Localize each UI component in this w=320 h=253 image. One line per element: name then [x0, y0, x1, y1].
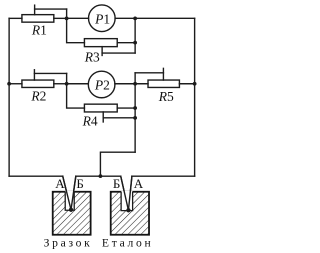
wire P1 to top right corner: [115, 17, 195, 19]
svg-text:P2: P2: [94, 78, 110, 93]
node dot P2 R5 junction: [133, 82, 137, 86]
wire left rail: [8, 18, 10, 176]
node dot bottom bus: [99, 174, 103, 178]
sample block Zrazok: [53, 191, 91, 235]
svg-text:R1: R1: [31, 22, 47, 37]
meter P1: [89, 5, 116, 32]
wire sample contacts redrawn over slot: [63, 176, 132, 210]
wire R3 right terminal: [117, 42, 135, 44]
meter P2: [88, 71, 115, 98]
node dot left rail R2: [7, 82, 11, 86]
svg-text:R2: R2: [30, 89, 46, 104]
etalon block: [111, 191, 149, 235]
wire bottom bus middle: [76, 175, 121, 177]
node dot R4 tap: [133, 116, 137, 120]
svg-text:Б: Б: [76, 176, 83, 191]
wire R2 to node B: [54, 83, 67, 85]
resistor R1: [22, 5, 67, 22]
svg-text:P1: P1: [94, 12, 110, 27]
wire etalon contact B: [121, 176, 129, 210]
svg-text:R4: R4: [82, 114, 98, 129]
wire node A down to R3: [67, 18, 85, 42]
wire node B down to R4: [67, 84, 85, 108]
wire bottom bus right: [132, 175, 195, 177]
svg-text:А: А: [134, 176, 144, 191]
wire etalon contact A: [128, 176, 132, 210]
resistor R4: [84, 104, 135, 122]
wire bottom bus left: [9, 175, 63, 177]
node dot R2 tap junction: [65, 82, 69, 86]
node dot right rail R5: [193, 82, 197, 86]
wire jog to bottom bus: [100, 152, 135, 176]
wire node C vertical down: [134, 84, 136, 152]
resistor R2: [22, 70, 67, 88]
resistor R3: [84, 39, 135, 56]
node dot top wire / R3 branch: [133, 16, 137, 20]
svg-text:R3: R3: [84, 49, 100, 64]
svg-text:А: А: [55, 176, 65, 191]
wire node A to P1: [67, 17, 89, 19]
wire rail to R2: [9, 83, 22, 85]
wire top left: rail to R1: [9, 17, 22, 19]
wire R5 to right rail: [179, 83, 194, 85]
wire R3 branch vertical: [134, 18, 136, 53]
svg-text:R5: R5: [158, 89, 174, 104]
node dot R3 right: [133, 41, 137, 45]
svg-text:Б: Б: [113, 176, 120, 191]
node dot sample contact: [69, 208, 73, 212]
node dot etalon contact: [126, 208, 130, 212]
node dot R4 right: [133, 106, 137, 110]
svg-text:Зразок: Зразок: [44, 236, 93, 249]
wire sample contact A: [63, 176, 71, 210]
resistor R5: [135, 68, 179, 87]
wire R1 to node A: [54, 17, 67, 19]
wire R4 right terminal: [117, 107, 135, 109]
wire P2 to node C: [115, 83, 148, 85]
svg-text:Еталон: Еталон: [102, 236, 154, 249]
wire node B to P2: [67, 83, 89, 85]
wire right rail: [194, 18, 196, 176]
node dot R1 tap junction: [65, 16, 69, 20]
wire sample contact B: [71, 176, 76, 210]
